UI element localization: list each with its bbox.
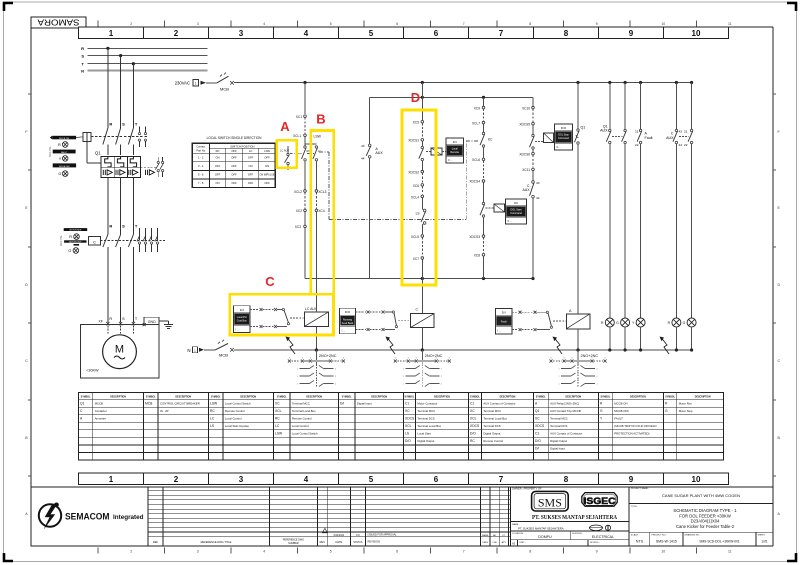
svg-text:FN: FN (356, 534, 359, 537)
svg-text:6: 6 (302, 357, 303, 359)
svg-text:MCCB OFF: MCCB OFF (614, 409, 629, 413)
svg-text:0 ...: 0 ... (557, 145, 562, 149)
svg-text:1: 1 (297, 383, 298, 385)
svg-text:XC7: XC7 (413, 257, 419, 261)
logo ISGEC (582, 493, 617, 507)
svg-text:Terminal MCC: Terminal MCC (292, 402, 310, 406)
svg-text:SMS-W-1415: SMS-W-1415 (656, 540, 677, 544)
svg-text:R: R (600, 402, 603, 406)
svg-text:2: 2 (174, 475, 179, 484)
svg-text:D/I: D/I (535, 447, 539, 451)
svg-text:RC: RC (216, 149, 220, 153)
contact fault to A (512, 311, 566, 331)
switch LC AUX (area A) (280, 146, 289, 170)
svg-text:Digital Output: Digital Output (483, 432, 500, 436)
svg-text:AUX Contact Trip MCCB: AUX Contact Trip MCCB (550, 409, 581, 413)
svg-text:44: 44 (536, 196, 540, 200)
bus T (82, 61, 208, 66)
svg-text:OFF: OFF (231, 181, 237, 185)
svg-text:DESCRIPTION: DESCRIPTION (175, 396, 191, 398)
svg-text:B: B (316, 112, 325, 127)
svg-text:DRAWING NO. :: DRAWING NO. : (685, 534, 702, 537)
block D/I Local Remote (446, 138, 464, 163)
switch local/remote (area D) (419, 146, 424, 170)
svg-text:(MCCB TRIP ON O/LR OR FIELD: (MCCB TRIP ON O/LR OR FIELD (614, 424, 656, 428)
svg-text:DESCRIPTION: DESCRIPTION (500, 396, 516, 398)
svg-text:STATUS: STATUS (353, 541, 362, 544)
svg-text:E: E (25, 206, 28, 210)
svg-text:SYMBOL: SYMBOL (536, 396, 546, 398)
svg-text:9: 9 (596, 22, 598, 26)
svg-text:RC: RC (275, 417, 280, 421)
terminal XC2 (296, 209, 307, 225)
svg-text:PROTECTION ACTIVATED): PROTECTION ACTIVATED) (614, 432, 649, 436)
svg-text:C: C (778, 359, 781, 363)
terminal XC1 (296, 115, 307, 134)
terminal XC8 (474, 254, 485, 279)
svg-text:B: B (25, 436, 28, 440)
svg-text:XC3: XC3 (295, 225, 301, 229)
svg-text:4: 4 (263, 550, 265, 554)
svg-text:4: 4 (304, 475, 309, 484)
svg-text:LSW: LSW (264, 149, 270, 153)
svg-text:Digital Input: Digital Input (357, 402, 372, 406)
svg-text:LSW: LSW (275, 432, 283, 436)
svg-text:APY: APY (502, 541, 507, 544)
relay coupling (DOL start) (486, 204, 506, 212)
svg-text:6: 6 (592, 357, 593, 359)
svg-text:2NO+2NC: 2NO+2NC (581, 354, 599, 358)
svg-text:DESCRIPTION: DESCRIPTION (434, 396, 450, 398)
svg-text:SYMBOL: SYMBOL (81, 396, 91, 398)
svg-text:4: 4 (304, 29, 309, 38)
logo SMS (532, 491, 569, 511)
svg-text:Y: Y (632, 321, 635, 325)
highlight box D (402, 110, 436, 285)
svg-text:R: R (109, 224, 112, 229)
svg-text:230VAC: 230VAC (175, 81, 190, 86)
svg-text:Integrated: Integrated (113, 514, 144, 521)
table reference drawings (148, 487, 510, 546)
svg-text:ISGEC: ISGEC (584, 496, 617, 506)
terminal XCL3 (315, 190, 327, 209)
svg-text:OFF: OFF (231, 173, 237, 177)
svg-text:SYMBOL: SYMBOL (342, 396, 352, 398)
svg-text:MCCB ON: MCCB ON (614, 402, 627, 406)
svg-text:XF: XF (98, 320, 103, 324)
svg-text:MCC PNL: MCC PNL (60, 235, 63, 246)
svg-text:Terminal DCS: Terminal DCS (550, 424, 567, 428)
svg-text:LOCATION :: LOCATION : (512, 532, 525, 535)
svg-text:C: C (416, 307, 419, 311)
svg-text:2: 2 (597, 376, 598, 378)
svg-text:1: 1 (194, 349, 196, 353)
svg-text:Motor Stop: Motor Stop (679, 409, 693, 413)
svg-text:R: R (665, 402, 668, 406)
svg-text:SYMBOL: SYMBOL (277, 396, 287, 398)
svg-text:XDCS4: XDCS4 (469, 180, 480, 184)
svg-text:5 - 6: 5 - 6 (198, 173, 204, 177)
svg-text:6: 6 (343, 357, 344, 359)
svg-text:Command: Command (510, 212, 522, 215)
svg-text:XC: XC (535, 417, 540, 421)
lamp R MOTOR RUN (69, 234, 79, 240)
terminal XCL5 (411, 235, 424, 257)
svg-text:XC: XC (275, 402, 280, 406)
svg-text:Q1: Q1 (95, 151, 101, 156)
svg-text:OFF: OFF (215, 164, 221, 168)
svg-text:6: 6 (434, 475, 439, 484)
svg-text:AUX: AUX (523, 188, 531, 192)
svg-text:AUX: AUX (600, 129, 608, 133)
node neutral rail taps (315, 348, 693, 351)
svg-text:XCL: XCL (405, 424, 412, 428)
svg-text:Remote Control: Remote Control (292, 417, 312, 421)
svg-text:T: T (135, 122, 138, 127)
node control rail taps (303, 81, 693, 84)
svg-text:OFF: OFF (215, 173, 221, 177)
svg-text:ON: ON (265, 164, 269, 168)
svg-text:SWITCH POSITION: SWITCH POSITION (230, 145, 254, 149)
svg-text:6: 6 (449, 357, 450, 359)
column reference header top (79, 21, 732, 39)
svg-text:6: 6 (551, 357, 552, 359)
terminal XC10 (522, 106, 534, 122)
svg-text:4: 4 (263, 22, 265, 26)
svg-text:3 - 4: 3 - 4 (198, 164, 204, 168)
svg-text:AUX Relay [2NO+2NC]: AUX Relay [2NO+2NC] (550, 402, 579, 406)
svg-text:NO/PKG :: NO/PKG : (590, 542, 600, 544)
svg-text:D/I: D/I (502, 310, 506, 314)
svg-text:SYMBOL: SYMBOL (405, 396, 415, 398)
terminal XC3 (295, 225, 307, 278)
svg-text:XCL3: XCL3 (318, 190, 326, 194)
svg-text:Fault: Fault (501, 320, 507, 324)
svg-text:ON IMPULSE: ON IMPULSE (260, 174, 275, 177)
svg-text:ELECTRICAL: ELECTRICAL (592, 535, 614, 539)
svg-text:I ...: I ... (236, 327, 240, 331)
svg-text:G: G (58, 172, 61, 176)
svg-text:MCCB ON: MCCB ON (59, 138, 69, 140)
svg-text:R: R (58, 143, 61, 147)
svg-text:Ammeter: Ammeter (95, 417, 106, 421)
wire A fault lamp (635, 83, 652, 319)
svg-text:Digital Output: Digital Output (550, 439, 567, 443)
wire KC column feed (483, 97, 485, 106)
lamp R MCC on (601, 318, 614, 350)
breaker Q1 aux contacts top (138, 127, 146, 148)
svg-text:N: N (81, 68, 84, 73)
svg-text:6: 6 (605, 357, 606, 359)
svg-text:6: 6 (396, 550, 398, 554)
breaker Q1 poles (103, 122, 138, 156)
svg-text:A: A (569, 309, 572, 313)
svg-text:R: R (109, 317, 112, 321)
svg-text:NUMBER: NUMBER (288, 542, 299, 545)
wire neutral control rail (234, 349, 692, 351)
switch DOL start (480, 202, 485, 234)
svg-text:G: G (68, 249, 71, 253)
breaker MCB (control, bottom) (215, 340, 233, 358)
svg-text:OWNER : PROPERTY OF: OWNER : PROPERTY OF (512, 487, 542, 490)
svg-text:2NO+2NC: 2NO+2NC (319, 354, 337, 358)
table symbol legend (79, 392, 724, 460)
svg-text:Cont Box: Cont Box (237, 320, 248, 323)
svg-text:C: C (25, 359, 28, 363)
svg-text:43: 43 (536, 181, 540, 185)
svg-text:SCALE :: SCALE : (631, 534, 640, 537)
svg-text:1: 1 (109, 29, 114, 38)
terminal XDCS2 (408, 170, 423, 183)
lamp R MCCB ON (58, 142, 68, 148)
svg-text:0 ...: 0 ... (508, 219, 513, 223)
svg-text:C1: C1 (405, 402, 409, 406)
svg-text:43: 43 (679, 129, 683, 133)
svg-text:LC AUX: LC AUX (305, 307, 318, 311)
svg-text:6: 6 (436, 357, 437, 359)
ground GND (143, 317, 173, 328)
svg-text:10: 10 (692, 475, 701, 484)
svg-text:D/I: D/I (514, 201, 518, 205)
svg-text:Digital Output: Digital Output (417, 439, 434, 443)
svg-text:Motor Run: Motor Run (679, 402, 693, 406)
svg-text:I ...: I ... (342, 328, 346, 332)
title block project section (629, 487, 773, 546)
svg-text:44: 44 (679, 143, 683, 147)
svg-text:XC9: XC9 (474, 106, 480, 110)
svg-text:A: A (280, 119, 290, 134)
svg-text:XCL4: XCL4 (411, 195, 419, 199)
svg-text:XCL1: XCL1 (293, 134, 301, 138)
svg-text:LSW: LSW (314, 135, 322, 139)
svg-text:D/I: D/I (453, 140, 457, 144)
switch LS local start (416, 209, 426, 234)
svg-text:R: R (601, 321, 604, 325)
breaker Q1 trip unit box (95, 151, 164, 178)
svg-text:MCB: MCB (220, 86, 229, 91)
svg-text:Feed Back: Feed Back (342, 322, 354, 325)
bus S (81, 53, 207, 58)
svg-text:6: 6 (395, 357, 396, 359)
svg-text:7 - 8: 7 - 8 (198, 181, 204, 185)
svg-text:8: 8 (564, 29, 569, 38)
bus R (81, 46, 207, 51)
svg-text:10: 10 (661, 550, 665, 554)
svg-text:OFF: OFF (248, 173, 254, 177)
svg-text:1: 1 (297, 368, 298, 370)
svg-text:Terminal Local Box: Terminal Local Box (417, 424, 441, 428)
svg-text:SYMBOL: SYMBOL (665, 396, 675, 398)
svg-text:I ...: I ... (498, 329, 502, 333)
svg-text:KC: KC (488, 138, 493, 142)
svg-text:M: M (115, 344, 124, 356)
svg-text:PROJECT NAME :: PROJECT NAME : (631, 487, 650, 490)
svg-text:NTS: NTS (636, 540, 644, 544)
lamp G motor stop (683, 318, 696, 350)
svg-text:NAME :: NAME : (512, 523, 520, 526)
svg-text:Local Start Impulse: Local Start Impulse (225, 424, 249, 428)
svg-text:XDCS5: XDCS5 (519, 122, 530, 126)
svg-text:DESCRIPTION: DESCRIPTION (695, 396, 711, 398)
svg-text:11: 11 (728, 22, 732, 26)
svg-text:XDCS3: XDCS3 (469, 235, 480, 239)
svg-text:Y: Y (600, 417, 603, 421)
svg-text:XC11: XC11 (522, 168, 530, 172)
off-sheet arrow 2 (386, 337, 396, 355)
terminal XDCS1 (408, 139, 423, 147)
svg-text:8: 8 (529, 22, 531, 26)
highlight label D (411, 90, 420, 105)
svg-text:1: 1 (403, 368, 404, 370)
off-sheet arrow 1 (286, 337, 296, 355)
lamp Y FAULT (59, 156, 68, 162)
svg-text:DESCRIPTION: DESCRIPTION (110, 396, 126, 398)
svg-text:LC: LC (210, 417, 215, 421)
svg-text:2: 2 (130, 22, 132, 26)
svg-text:XDCS: XDCS (405, 417, 415, 421)
svg-text:6: 6 (434, 29, 439, 38)
contact running feedback (356, 311, 411, 332)
svg-text:AUX: AUX (666, 136, 674, 140)
terminal block 2NO+2NC (LC AUX) (288, 350, 345, 388)
svg-text:T: T (135, 317, 138, 321)
svg-text:XCL7: XCL7 (472, 121, 480, 125)
svg-text:22: 22 (635, 143, 639, 147)
svg-text:ON: ON (216, 181, 220, 185)
svg-text:XCL: XCL (275, 409, 282, 413)
svg-text:Cane Kicker for Feeder Table-2: Cane Kicker for Feeder Table-2 (676, 524, 735, 529)
source 230VAC (175, 80, 217, 87)
svg-text:GND: GND (148, 320, 156, 324)
svg-text:<30KW: <30KW (86, 369, 99, 373)
block D/O local panel (area C) (234, 306, 251, 333)
svg-text:REF: REF (153, 540, 159, 544)
svg-text:MCCB: MCCB (95, 402, 103, 406)
label plate MCCB OFF (53, 163, 76, 167)
svg-text:1: 1 (109, 475, 114, 484)
svg-text:1 - 2: 1 - 2 (198, 156, 204, 160)
svg-text:XCL: XCL (470, 417, 477, 421)
svg-text:Terminal DCS: Terminal DCS (417, 417, 434, 421)
svg-text:9: 9 (596, 550, 598, 554)
svg-text:FAULT: FAULT (61, 151, 68, 154)
relay coupling (area D D/I) (426, 148, 446, 155)
svg-text:G: G (600, 409, 603, 413)
svg-text:A: A (535, 402, 538, 406)
svg-text:10: 10 (661, 22, 665, 26)
svg-text:8: 8 (564, 475, 569, 484)
svg-text:Local Control Switch: Local Control Switch (292, 432, 318, 436)
svg-text:3: 3 (239, 475, 244, 484)
svg-text:A: A (25, 512, 28, 516)
lamp Y fault (632, 318, 645, 350)
svg-text:MCB: MCB (219, 353, 228, 358)
contactor C coil box (89, 237, 104, 245)
contactor C aux contacts (137, 228, 159, 252)
svg-text:T: T (135, 224, 138, 229)
svg-text:SMS-SCD-DOL-<30KW-001: SMS-SCD-DOL-<30KW-001 (699, 540, 739, 544)
svg-text:XC8: XC8 (474, 254, 480, 258)
lamp G MCCB OFF (58, 171, 68, 177)
svg-text:Contactor: Contactor (95, 409, 107, 413)
highlight label A (280, 119, 290, 134)
motor terminals XF (98, 317, 137, 325)
svg-text:SCHEMATIC DIAGRAM TYPE - 1: SCHEMATIC DIAGRAM TYPE - 1 (673, 508, 737, 513)
svg-text:7: 7 (499, 475, 504, 484)
svg-text:Q1: Q1 (581, 126, 586, 130)
svg-text:CONTROL CIRCUIT BREAKER: CONTROL CIRCUIT BREAKER (160, 402, 200, 406)
panel wiring tag 2 (vertical) (60, 235, 63, 246)
svg-text:DESCRIPTION: DESCRIPTION (565, 396, 581, 398)
block D/O fault (496, 308, 513, 334)
svg-text:6: 6 (572, 357, 573, 359)
svg-text:2: 2 (130, 550, 132, 554)
label plate MOTOR RUN (64, 228, 87, 232)
svg-text:PROJECT NO. :: PROJECT NO. : (651, 535, 667, 537)
svg-text:C1: C1 (470, 402, 474, 406)
svg-text:XDCS: XDCS (470, 424, 480, 428)
phase wires Q1 to contactor (108, 178, 133, 228)
svg-text:2: 2 (441, 376, 442, 378)
svg-text:Remote Control: Remote Control (225, 409, 245, 413)
svg-text:S: S (81, 53, 84, 58)
contact pair Q1 AUX (600, 83, 626, 319)
svg-text:D/I: D/I (240, 308, 244, 312)
terminal block 2NO+2NC (A) (550, 350, 607, 388)
contact A AUX (361, 97, 383, 278)
svg-text:0 ...: 0 ... (448, 158, 453, 162)
phase wire R drop (106, 47, 109, 128)
table revision signatures (480, 487, 508, 546)
label plate FAULT (53, 150, 76, 154)
lamp R motor run (668, 318, 681, 350)
svg-text:SYMBOL: SYMBOL (600, 396, 610, 398)
svg-text:AUX: AUX (375, 151, 383, 155)
svg-text:LS: LS (210, 424, 215, 428)
svg-text:SYMBOL: SYMBOL (146, 396, 156, 398)
svg-text:NAME: NAME (482, 534, 489, 537)
svg-text:MCB: MCB (145, 402, 153, 406)
svg-text:AUX Contact of Contactor: AUX Contact of Contactor (550, 432, 582, 436)
switch DOL stop (530, 134, 535, 152)
lamp G MCC off (616, 318, 629, 350)
switch KC (480, 132, 493, 157)
svg-text:SEMACOM: SEMACOM (65, 512, 110, 522)
svg-text:LC: LC (249, 149, 252, 153)
relay A (566, 309, 590, 329)
svg-text:7: 7 (463, 550, 465, 554)
svg-text:1: 1 (403, 383, 404, 385)
svg-text:MOTOR STOP: MOTOR STOP (69, 241, 82, 243)
svg-text:Terminal MCC: Terminal MCC (550, 417, 568, 421)
svg-text:LC: LC (275, 424, 280, 428)
terminal XDCS4 (469, 180, 484, 203)
svg-text:9: 9 (629, 475, 634, 484)
block D/O DOL Stop Command (555, 124, 573, 150)
phase wire S drop (119, 54, 122, 128)
svg-text:5: 5 (369, 29, 374, 38)
svg-text:11: 11 (728, 550, 732, 554)
svg-text:Remote Control: Remote Control (483, 439, 503, 443)
svg-text:DATE: DATE (482, 541, 488, 544)
svg-text:6/24/2024: 6/24/2024 (334, 534, 345, 537)
contact C AUX (column) (523, 181, 540, 279)
svg-text:MCC PNL: MCC PNL (49, 146, 52, 157)
highlight label C (265, 274, 275, 289)
motor M (81, 325, 160, 378)
svg-text:N: N (187, 348, 190, 353)
svg-text:TITLE :: TITLE : (631, 506, 639, 508)
